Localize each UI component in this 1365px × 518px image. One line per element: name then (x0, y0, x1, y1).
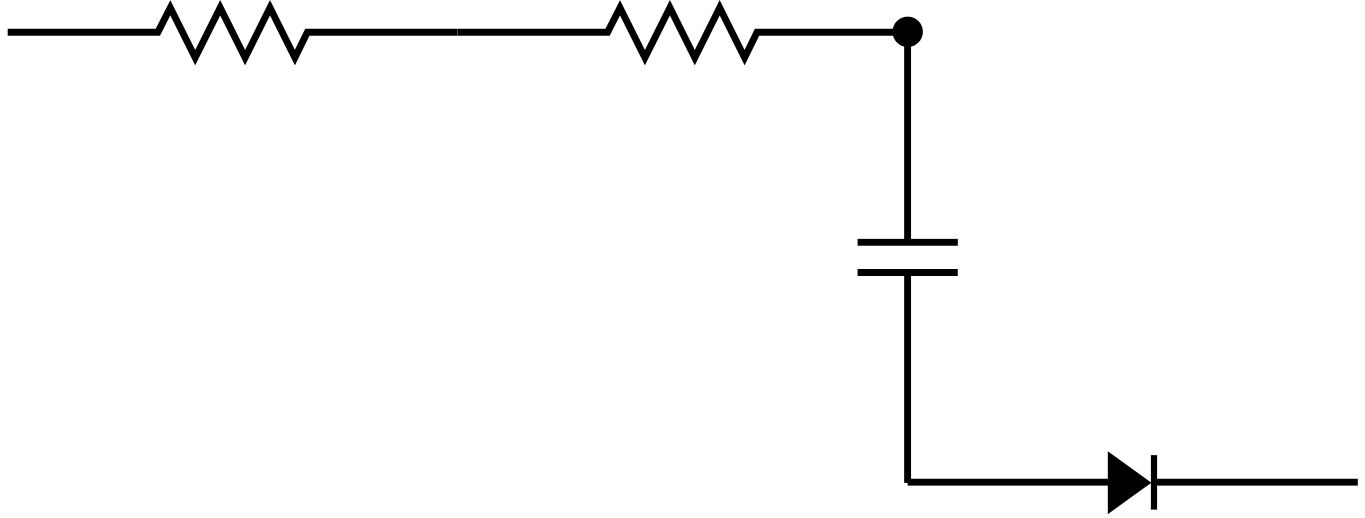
capacitor C1 (858, 242, 958, 272)
wire (vertical, node to capacitor) (904, 32, 911, 242)
wire (diode cathode to right end) (1151, 479, 1358, 486)
wire (vertical, capacitor to bottom corner) (904, 273, 911, 483)
diode D1 (1108, 451, 1154, 514)
wire (bottom horizontal, corner to diode anode) (908, 479, 1109, 486)
resistor R1 (8, 8, 458, 58)
resistor R2 (458, 8, 908, 58)
node A (junction dot) (893, 17, 923, 47)
